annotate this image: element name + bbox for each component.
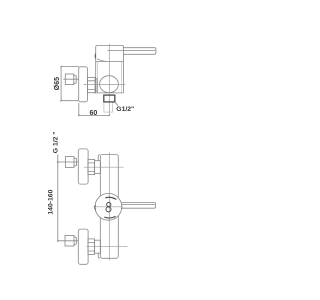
bottom union square <box>65 235 74 246</box>
top escutcheon <box>78 149 88 184</box>
top union lip <box>74 158 76 166</box>
top hex nut <box>88 159 95 174</box>
dim 60 ticks <box>78 115 110 117</box>
handle lever (side view) <box>123 48 155 55</box>
top union square <box>65 157 74 168</box>
dim Ø65 top ext <box>61 66 79 68</box>
svg-text:G 1/2 ": G 1/2 " <box>52 131 59 153</box>
diverter bump <box>94 53 97 58</box>
dim 60 left ext <box>78 103 80 116</box>
svg-text:140-160: 140-160 <box>48 189 55 214</box>
G1/2 leader upper <box>115 102 118 106</box>
bottom stub <box>95 240 101 253</box>
bottom stub step to column <box>98 253 100 258</box>
horizontal centerline thru circle <box>94 206 124 208</box>
vertical centerline <box>108 44 110 116</box>
handle inner line <box>108 49 156 51</box>
top stub <box>95 161 101 174</box>
top stub step to column <box>98 155 100 161</box>
handle base arc top <box>105 197 116 199</box>
hex nut <box>88 77 96 92</box>
handle (front) <box>121 203 156 209</box>
wall union square <box>65 74 74 85</box>
dim Ø65 ticks <box>60 66 62 102</box>
body column inner lines <box>97 62 99 93</box>
top union leader <box>58 161 79 163</box>
housing circle <box>100 76 119 93</box>
union center leader <box>63 78 78 80</box>
vertical centerline <box>108 152 110 260</box>
svg-text:G1/2": G1/2" <box>116 106 134 113</box>
handle base arc bottom <box>104 216 115 218</box>
lever underside diagonal <box>97 59 105 62</box>
bottom union lip <box>74 237 76 245</box>
escutcheon (edge view) <box>79 67 88 102</box>
bottom connection axis <box>87 246 128 248</box>
bottom union leader <box>58 240 79 242</box>
body column <box>100 155 118 259</box>
diverter bump front <box>95 205 96 210</box>
svg-text:60: 60 <box>90 110 98 117</box>
pivot detail top circle <box>107 202 111 206</box>
union lip <box>74 75 76 83</box>
housing bottom line <box>94 92 124 94</box>
top connection axis <box>84 166 124 168</box>
step ring <box>95 79 97 91</box>
bottom escutcheon <box>78 229 88 264</box>
body column left edge <box>95 62 97 93</box>
dim 60 line <box>79 114 110 116</box>
cap circle <box>95 193 122 220</box>
dim Ø65 line <box>60 67 62 101</box>
outlet bold square upper <box>104 95 115 102</box>
dim 140-160 vertical line <box>57 155 59 241</box>
dim Ø65 bottom ext <box>61 100 78 102</box>
outlet nipple faint <box>104 102 113 112</box>
dim ticks <box>57 161 59 242</box>
svg-text:Ø65: Ø65 <box>54 77 61 90</box>
horizontal axis centerline <box>84 83 126 85</box>
pivot detail bottom circle <box>106 207 111 212</box>
body column right edge <box>122 62 124 93</box>
body top rect <box>96 45 124 61</box>
handle inner line <box>121 204 155 206</box>
bottom hex nut <box>88 239 95 255</box>
